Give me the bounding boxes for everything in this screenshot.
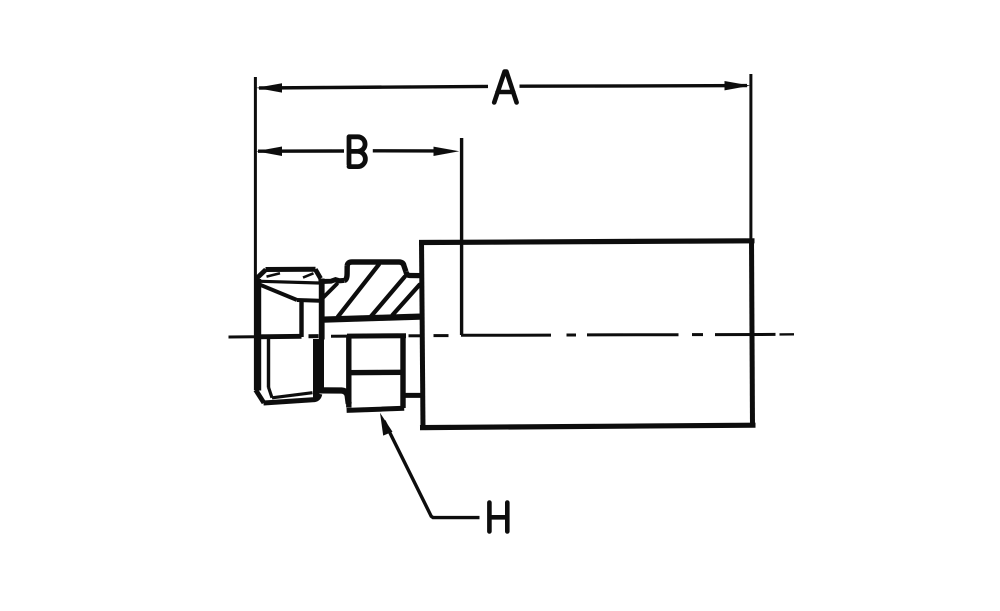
nut left face	[256, 279, 261, 391]
nut bottom chamfer outer	[256, 390, 264, 403]
label B	[349, 137, 365, 167]
nut rear hex corner bar (lower, merged lines)	[313, 339, 324, 394]
socket bump left wall	[345, 266, 348, 280]
shell (crimp sleeve) top edge	[419, 241, 755, 243]
label H	[489, 503, 507, 532]
facet tick 1	[267, 273, 281, 276]
nut rear hex corner bar (upper)	[319, 279, 325, 340]
step nipple to shell	[404, 393, 422, 398]
dimension line B	[258, 149, 436, 153]
nipple hex right edge	[400, 337, 405, 408]
nut bottom chamfer inner	[269, 387, 273, 398]
label A	[494, 72, 516, 103]
centerline (dash-dot axis)	[229, 335, 257, 338]
leader arrowhead	[380, 413, 393, 436]
extension line B right (inside shell to centerline)	[460, 138, 463, 335]
extension line right (A, end of shell)	[749, 74, 752, 243]
nut bore back edge	[299, 301, 303, 337]
nut top-right chamfer	[315, 269, 320, 278]
nut bottom edge	[264, 394, 320, 403]
nut rear corner blob	[313, 392, 323, 400]
arrowhead B right	[434, 147, 460, 156]
nut inner bottom line	[272, 393, 313, 398]
nut chamfer band line	[257, 281, 319, 283]
nipple hex bottom edge	[347, 408, 405, 410]
arrowhead B left	[256, 147, 282, 157]
nut top-left chamfer	[256, 270, 265, 279]
nut inner facet vertical	[267, 339, 270, 388]
socket lip left of bump	[319, 280, 345, 282]
nipple hex left edge	[346, 337, 351, 408]
shell bottom edge	[420, 425, 756, 427]
nut seat cone diagonal	[258, 284, 297, 300]
arrowhead A left	[256, 83, 282, 92]
socket bump right wall to lip	[406, 272, 421, 276]
dimension line A	[259, 86, 747, 88]
nut silhouette boundary on axis	[256, 334, 302, 339]
hatch 2	[371, 277, 405, 317]
socket bore bottom (thick)	[323, 317, 420, 320]
shell left edge	[422, 241, 424, 429]
nipple hex top edge on axis	[347, 333, 406, 338]
hatch 3	[393, 285, 420, 315]
nipple hex mid line	[347, 370, 406, 376]
socket bump top edge	[347, 262, 406, 272]
facet tick 2	[303, 273, 314, 277]
arrowhead A right	[725, 81, 751, 90]
extension line left (A/B datum)	[254, 77, 257, 390]
step line nut to nipple hex	[318, 390, 349, 403]
leader line to H	[384, 421, 480, 518]
nut thread line	[297, 298, 320, 303]
hatch 1	[338, 265, 379, 317]
nut top edge (section)	[266, 267, 316, 272]
shell right edge	[752, 240, 753, 428]
hatch 0	[322, 284, 337, 299]
